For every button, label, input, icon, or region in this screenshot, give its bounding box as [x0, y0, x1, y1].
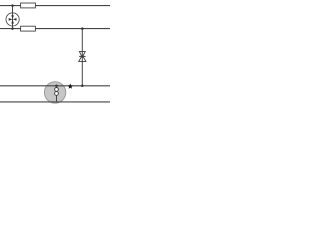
TVS arrester F1 (two triangles tip to tip with bar)	[79, 52, 86, 62]
junction dot (terminals to bus)	[55, 85, 58, 88]
wire (terminal chain)	[56, 86, 58, 102]
resistor R2	[21, 26, 36, 31]
terminal circle 1	[55, 88, 59, 92]
wire bus top (bonding bar top edge)	[0, 85, 110, 87]
resistor R1	[21, 3, 36, 8]
wire L1 (top conductor)	[0, 5, 110, 7]
junction dot (arrester to L2)	[81, 27, 84, 30]
junction dot (G1 to L1)	[11, 4, 14, 7]
node highlight (gray circle)	[44, 82, 65, 103]
junction dot (arrester to bus)	[81, 85, 84, 88]
wire bus bottom (bonding bar bottom edge)	[0, 101, 110, 103]
asterisk marker	[67, 83, 73, 88]
impulse source G1 (circle with converging arrows)	[6, 6, 19, 29]
terminal circle 2	[55, 92, 59, 96]
wire L2 (second conductor)	[0, 28, 110, 30]
wire (L2 down to arrester)	[81, 29, 83, 86]
junction dot (G1 to L2)	[11, 27, 14, 30]
